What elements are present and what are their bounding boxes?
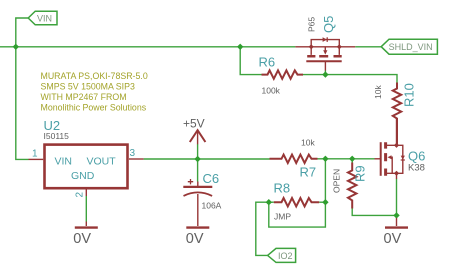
svg-text:Q5: Q5 [321,16,336,33]
flag SHLD_VIN [381,39,437,54]
svg-text:0V: 0V [384,231,402,247]
svg-text:I50115: I50115 [44,131,70,141]
transistor Q5 [295,40,355,71]
flag IO2 [268,248,296,262]
svg-text:+5V: +5V [183,116,205,130]
wire R8 to IO2 flag [256,202,269,255]
svg-text:100k: 100k [262,86,281,96]
svg-text:R9: R9 [353,165,368,182]
capacitor C6 [197,182,199,187]
svg-text:10k: 10k [301,138,315,148]
node +5V junction [194,156,200,162]
Q5 body arrow [323,50,327,54]
U2 regulator box [45,145,128,189]
Q6 body diode [401,156,405,160]
svg-text:2: 2 [75,192,86,198]
wire R8 left lead link [269,201,274,203]
Q6 source dot [394,171,399,176]
wire bus down to U2 pin1 [16,47,29,160]
node R9 top junction [349,156,355,162]
note text block [41,71,148,113]
resistor R6 [262,70,304,78]
svg-text:WITH MP2467 FROM: WITH MP2467 FROM [41,92,127,102]
svg-text:SMPS 5V 1500MA SIP3: SMPS 5V 1500MA SIP3 [41,82,135,92]
resistor R9 [348,163,356,209]
node R8 right junction [322,199,328,205]
supply +5V symbol [190,130,206,142]
wire bus to SHLD_VIN flag [355,46,381,48]
Q5 body diode [323,37,327,42]
U2 pin2 lead [85,189,87,196]
node VIN junction [13,44,19,50]
node bus/R6 junction [237,44,243,50]
transistor Q6 [375,119,403,180]
wire VIN flag stem [16,18,28,47]
svg-text:VOUT: VOUT [87,155,117,167]
svg-text:MURATA PS,OKI-78SR-5.0: MURATA PS,OKI-78SR-5.0 [41,71,148,81]
svg-text:VIN: VIN [37,14,52,24]
ground Q6 0V [396,218,398,226]
wire +5V stem green part [197,144,199,159]
wire R7 to Q6 gate [318,158,375,160]
svg-text:R6: R6 [259,55,276,70]
wire Q5 gate stem green part [324,71,326,75]
wire R6 to Q5 gate node [303,74,325,76]
svg-text:0V: 0V [73,231,91,247]
U2 pin3 lead [129,158,144,160]
Q6 bulk arrow [388,155,392,159]
node ground rail junction [393,212,399,218]
svg-text:P65: P65 [307,17,317,32]
wire U2 pin2 green part [85,196,87,222]
svg-text:OPEN: OPEN [332,169,342,193]
wire Q6 source to ground rail [396,179,398,216]
svg-text:JMP: JMP [274,212,291,222]
wire R9 top green part [351,159,353,163]
resistor R10 [393,83,401,146]
Q5 source dot [309,44,314,49]
svg-text:K38: K38 [408,163,425,174]
Q5 drain dot [337,44,342,49]
svg-text:Monolithic Power Solutions: Monolithic Power Solutions [41,103,147,113]
node R7/R8 junction [322,156,328,162]
flag VIN [28,11,57,25]
ground U2 0V [85,222,87,227]
svg-text:Q6: Q6 [408,149,425,164]
resistor R7 [270,155,318,163]
svg-text:VIN: VIN [55,155,73,167]
wire gate node to R10 top [325,75,397,83]
wire node down R7 to R8 [324,159,326,202]
svg-text:0V: 0V [186,231,204,247]
node R8 left junction [266,199,272,205]
svg-text:1: 1 [32,149,38,160]
wire R8 right lead link [319,201,325,203]
wire bus down to R6 [240,47,261,75]
svg-text:SHLD_VIN: SHLD_VIN [389,42,433,52]
svg-text:R8: R8 [274,181,291,196]
svg-text:10k: 10k [373,85,383,99]
wire R9 bottom to ground rail [352,209,396,216]
wire main VIN bus [0,46,295,48]
wire U2 pin3 to R7 [144,158,270,160]
svg-text:GND: GND [71,170,95,182]
ground C6 0V [186,226,209,228]
U2 pin1 lead [29,158,44,160]
Q6 drain dot [394,143,399,148]
svg-text:IO2: IO2 [278,251,293,261]
svg-text:R7: R7 [300,165,317,180]
svg-text:C6: C6 [203,171,220,186]
svg-text:106A: 106A [202,200,222,210]
wire C6 top stem [197,159,199,182]
svg-text:R10: R10 [402,83,417,107]
wire R8 bypass loop [269,202,326,227]
resistor R8 [274,198,319,206]
node Q5 gate junction [322,71,328,77]
svg-text:3: 3 [130,148,136,159]
